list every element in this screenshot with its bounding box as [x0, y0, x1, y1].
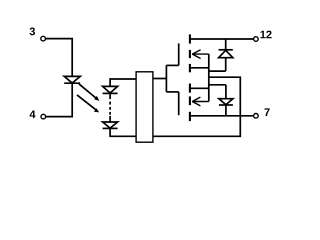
- pin 12 terminal: [254, 37, 259, 42]
- driver block U1: [136, 72, 153, 142]
- pin 3 terminal: [41, 36, 46, 41]
- wire driver return: [153, 77, 240, 136]
- Q2 source wire to N1: [191, 87, 209, 89]
- photodiode PD2 triangle: [103, 122, 118, 128]
- pin label 7: [264, 108, 269, 116]
- Q1 body arrow: [192, 50, 209, 59]
- light arrow 2: [77, 95, 99, 113]
- Q1 gate bar: [178, 43, 180, 65]
- photodiode stack dashed link: [109, 93, 111, 122]
- photodiode PD1 triangle: [103, 86, 118, 93]
- diode D2 anode stub: [225, 58, 227, 71]
- Q2 gate bar: [178, 92, 180, 115]
- wire N1 to D2 anode: [209, 70, 226, 72]
- diode D2 triangle: [219, 50, 233, 57]
- wire LED cathode to pin 4: [46, 83, 73, 116]
- photodiode PD1 cathode bar: [103, 92, 118, 94]
- pin 4 terminal: [41, 114, 46, 119]
- Q2 body contact bar: [189, 96, 191, 105]
- Q1 drain contact bar: [189, 34, 191, 43]
- Q2 body arrow: [192, 97, 209, 106]
- LED D1 triangle: [64, 76, 80, 83]
- LED D1 cathode bar: [64, 82, 80, 84]
- Q2 drain contact bar (bottom): [189, 112, 191, 121]
- wire driver output to gate junction: [153, 78, 167, 80]
- photodiode PD1 anode wire to driver: [110, 79, 136, 86]
- diode D3 cathode bar: [219, 104, 233, 106]
- diode D3 triangle: [219, 99, 233, 105]
- Q1 drain rail to pin 12: [190, 38, 254, 40]
- Q1 body contact bar: [189, 50, 191, 58]
- photodiode PD2 cathode bar: [103, 127, 118, 129]
- photodiode PD2 cathode wire to driver: [110, 128, 136, 136]
- Q1 source contact bar: [189, 64, 191, 72]
- Q2 source contact bar (top): [189, 84, 191, 93]
- pin label 4: [30, 111, 36, 119]
- node N1 common source vertical: [208, 54, 210, 101]
- light arrow 1: [79, 84, 100, 101]
- Q1 source wire: [191, 67, 209, 69]
- diode D2 cathode stub: [225, 39, 227, 50]
- wire to Q1 gate: [166, 64, 178, 66]
- diode D3 cathode stub: [225, 105, 227, 116]
- pin 7 terminal: [254, 114, 259, 119]
- diode D2 cathode bar: [219, 49, 233, 51]
- gate junction vertical: [165, 65, 167, 92]
- diode D3 anode stub: [225, 85, 227, 99]
- wire to Q2 gate: [166, 91, 178, 93]
- pin label 3: [30, 28, 35, 36]
- wire pin3 to LED anode: [45, 39, 72, 77]
- wire N1 to D3 anode: [209, 84, 226, 86]
- Q2 drain rail to pin 7: [190, 115, 253, 117]
- pin label 12: [260, 31, 265, 39]
